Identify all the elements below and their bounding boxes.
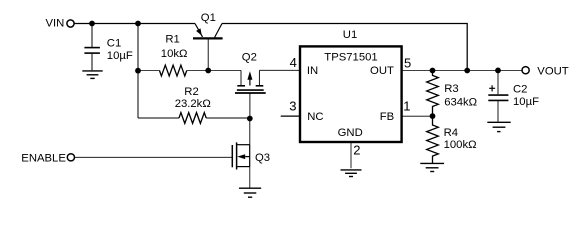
transistor Q1: [193, 12, 223, 68]
svg-text:C1: C1: [107, 37, 121, 49]
IC U1 TPS71501 regulator: [300, 29, 402, 142]
svg-text:2: 2: [353, 143, 360, 158]
node VOUT: [522, 66, 569, 78]
junction R1 right / Q1 base: [205, 68, 211, 74]
wire FB pin 1: [402, 115, 433, 117]
capacitor C1: [84, 24, 132, 71]
svg-text:ENABLE: ENABLE: [21, 153, 66, 165]
svg-text:VOUT: VOUT: [537, 66, 568, 78]
ground Q3: [239, 188, 261, 197]
wire OUT pin 5 to VOUT: [402, 69, 522, 71]
wire NC stub pin 3: [281, 115, 300, 117]
wire Q1 collector to OUT node: [222, 24, 467, 71]
capacitor C2 (polarized): [488, 70, 539, 121]
svg-text:R4: R4: [444, 127, 458, 139]
svg-text:U1: U1: [343, 29, 357, 41]
junction OUT/Q1 collector: [464, 68, 470, 74]
junction OUT/C2: [495, 68, 501, 74]
wire Q2 right lead to IN pin: [259, 69, 300, 71]
junction VIN-R1 branch: [135, 21, 141, 27]
svg-text:10µF: 10µF: [513, 96, 539, 108]
svg-text:10µF: 10µF: [107, 50, 133, 62]
svg-text:R1: R1: [165, 34, 179, 46]
wire VIN rail: [74, 23, 195, 25]
svg-text:IN: IN: [307, 65, 318, 77]
svg-text:FB: FB: [380, 111, 394, 123]
ground C2: [487, 122, 510, 131]
svg-text:10kΩ: 10kΩ: [161, 48, 188, 60]
resistor R3: [427, 71, 477, 117]
transistor Q2: [235, 52, 266, 94]
resistor R4: [427, 116, 477, 163]
wire VIN branch down to R1/R2: [137, 24, 139, 119]
wire junction down to Q3 drain: [249, 119, 251, 145]
ground R4: [420, 163, 444, 171]
transistor Q3: [232, 142, 270, 188]
svg-text:3: 3: [289, 99, 296, 114]
ground C1: [82, 71, 102, 79]
svg-text:23.2kΩ: 23.2kΩ: [175, 98, 211, 110]
svg-text:R3: R3: [444, 83, 458, 95]
svg-text:Q1: Q1: [201, 12, 216, 24]
resistor R1: [140, 34, 208, 76]
svg-text:VIN: VIN: [46, 18, 65, 30]
svg-text:634kΩ: 634kΩ: [444, 97, 477, 109]
ground U1 pin2: [341, 170, 362, 177]
junction OUT/R3: [430, 68, 436, 74]
wire GND pin 2: [350, 142, 352, 168]
svg-text:R2: R2: [184, 86, 198, 98]
wire Q2 gate down: [249, 93, 251, 119]
svg-text:100kΩ: 100kΩ: [444, 139, 477, 151]
junction VIN-C1: [89, 21, 95, 27]
svg-text:1: 1: [403, 99, 410, 114]
svg-text:OUT: OUT: [370, 65, 394, 77]
junction R1 left: [135, 68, 141, 74]
svg-text:Q2: Q2: [242, 52, 257, 64]
wire ENABLE to Q3 gate: [75, 156, 233, 158]
svg-text:4: 4: [290, 55, 297, 70]
node ENABLE: [21, 153, 74, 165]
svg-text:GND: GND: [338, 127, 363, 139]
wire R1 to Q2 left lead: [208, 69, 241, 71]
svg-text:5: 5: [404, 55, 411, 70]
svg-text:NC: NC: [307, 111, 323, 123]
svg-text:TPS71501: TPS71501: [324, 51, 377, 63]
svg-text:Q3: Q3: [255, 152, 270, 164]
svg-text:C2: C2: [513, 83, 527, 95]
resistor R2: [138, 86, 250, 123]
junction FB/R3/R4: [430, 113, 436, 119]
node VIN: [46, 18, 75, 30]
junction R2/Q2 gate/Q3 drain: [247, 116, 253, 122]
